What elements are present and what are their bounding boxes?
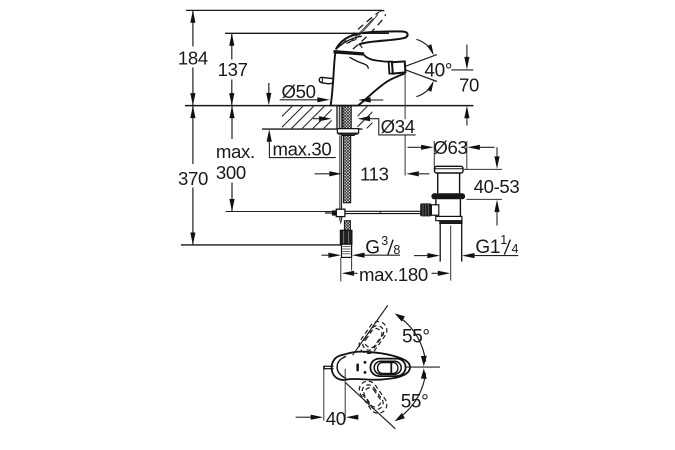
dimension 113 bbox=[315, 163, 430, 184]
svg-text:4: 4 bbox=[512, 242, 519, 256]
dimension 70 (spout height) bbox=[459, 45, 479, 126]
faucet neck to spout top bbox=[350, 55, 389, 69]
faucet lever (rest position) bbox=[336, 31, 408, 49]
svg-text:370: 370 bbox=[178, 168, 208, 189]
svg-text:max.180: max.180 bbox=[359, 264, 428, 285]
waste neck bbox=[438, 173, 460, 193]
svg-text:137: 137 bbox=[218, 59, 248, 80]
svg-text:G1: G1 bbox=[475, 237, 500, 258]
aerator collar bbox=[389, 62, 393, 74]
svg-text:1: 1 bbox=[500, 233, 507, 247]
waste rod stub bbox=[431, 205, 438, 215]
reference line: lever rest height (137) bbox=[225, 32, 389, 34]
dimension 55deg lower bbox=[345, 368, 428, 429]
dimension max.300 bbox=[216, 106, 255, 212]
dimension G1 1/4 (waste thread) bbox=[414, 233, 519, 258]
hose hex connector bbox=[340, 230, 352, 244]
mounting nut bbox=[337, 129, 358, 136]
dimension 184 bbox=[178, 10, 208, 105]
waste coupling bbox=[436, 216, 463, 224]
faucet lever raised (dashed) bbox=[341, 12, 385, 49]
top view handle rotated down (dashed) bbox=[356, 378, 391, 417]
faucet body left edge and base bbox=[330, 51, 359, 106]
dimension Ø63 (waste flange) bbox=[408, 137, 495, 171]
flexible hose (braided, lower) bbox=[344, 221, 350, 231]
waste body bbox=[436, 199, 461, 216]
top view dot lower bbox=[364, 371, 367, 374]
waste cap bbox=[435, 166, 463, 173]
top view handle rotated up (dashed) bbox=[356, 318, 391, 357]
spout bottom curve bbox=[358, 74, 405, 106]
rod coupling fitting bbox=[325, 209, 345, 216]
top view temp tick bbox=[356, 363, 359, 371]
raised lever motion strokes (thin) bbox=[349, 14, 378, 43]
reference line: hose end (370 bottom) bbox=[181, 244, 349, 246]
dimension 370 bbox=[178, 106, 208, 245]
waste seal ring bbox=[431, 193, 465, 199]
svg-text:55°: 55° bbox=[401, 392, 429, 413]
flexible hose (braided, upper) bbox=[343, 135, 350, 202]
top view dot upper bbox=[364, 361, 367, 364]
spray reference line (y70) bbox=[451, 69, 473, 71]
svg-text:Ø50: Ø50 bbox=[282, 81, 316, 102]
svg-text:max.: max. bbox=[216, 141, 255, 162]
svg-text:113: 113 bbox=[360, 163, 389, 184]
svg-text:40: 40 bbox=[326, 408, 346, 429]
reference line: max lever height (top) bbox=[186, 9, 382, 11]
pull rod (vertical) bbox=[340, 135, 342, 225]
dimension leader Ø50 bbox=[280, 81, 384, 103]
raised lever tip (dashed arc) bbox=[380, 10, 386, 16]
dimension 40 (top view) bbox=[296, 369, 359, 429]
threaded shank (braided thread) bbox=[343, 106, 352, 129]
reference line: rod level (max300 bottom) bbox=[226, 211, 334, 213]
svg-text:70: 70 bbox=[459, 74, 479, 95]
svg-text:Ø34: Ø34 bbox=[381, 116, 415, 137]
faucet cartridge joint band bbox=[334, 50, 364, 55]
deck hatch left block bbox=[282, 106, 332, 128]
svg-text:8: 8 bbox=[393, 243, 400, 257]
reference line: deck underside bbox=[262, 128, 363, 130]
dimension 40-53 (waste height range) bbox=[464, 147, 519, 225]
waste tailpipe bbox=[440, 224, 462, 281]
top view centerline bbox=[406, 366, 440, 368]
svg-text:184: 184 bbox=[178, 47, 208, 68]
dimension G 3/8 (hose thread) bbox=[322, 234, 401, 259]
dimension 55deg upper bbox=[353, 305, 430, 366]
horizontal rod to waste bbox=[345, 211, 425, 213]
dimension leader Ø34 (deck hole) bbox=[313, 116, 416, 137]
deck hatch right block bbox=[358, 106, 373, 128]
svg-text:3: 3 bbox=[381, 234, 388, 248]
svg-text:max.30: max.30 bbox=[273, 138, 332, 159]
dimension max.30 (deck thickness) bbox=[266, 83, 336, 159]
svg-text:Ø63: Ø63 bbox=[433, 137, 467, 158]
pop-up knob (left of body) bbox=[319, 77, 334, 83]
top view spray stub bbox=[323, 366, 333, 370]
waste rod knob (knurled) bbox=[420, 203, 431, 216]
aerator bbox=[392, 61, 405, 73]
top view body outline bbox=[332, 352, 410, 380]
svg-text:55°: 55° bbox=[402, 327, 430, 348]
threaded shank tube bbox=[337, 106, 343, 128]
hose G3/8 threaded tip bbox=[342, 244, 352, 257]
top view handle outer bbox=[370, 359, 405, 377]
svg-text:40°: 40° bbox=[424, 60, 452, 81]
svg-text:300: 300 bbox=[216, 162, 246, 183]
svg-text:40-53: 40-53 bbox=[474, 176, 520, 197]
top view handle middle bbox=[374, 361, 401, 374]
spout centerline extension bbox=[404, 73, 406, 175]
dimension max.180 bbox=[341, 258, 451, 285]
top view handle grip bbox=[378, 363, 398, 374]
reference line: mounting deck top (rim) bbox=[185, 105, 473, 107]
top view cartridge inner arc bbox=[337, 356, 346, 378]
dimension 40deg spray angle bbox=[405, 39, 452, 96]
svg-text:G: G bbox=[365, 238, 379, 259]
dimension 137 bbox=[218, 33, 248, 105]
